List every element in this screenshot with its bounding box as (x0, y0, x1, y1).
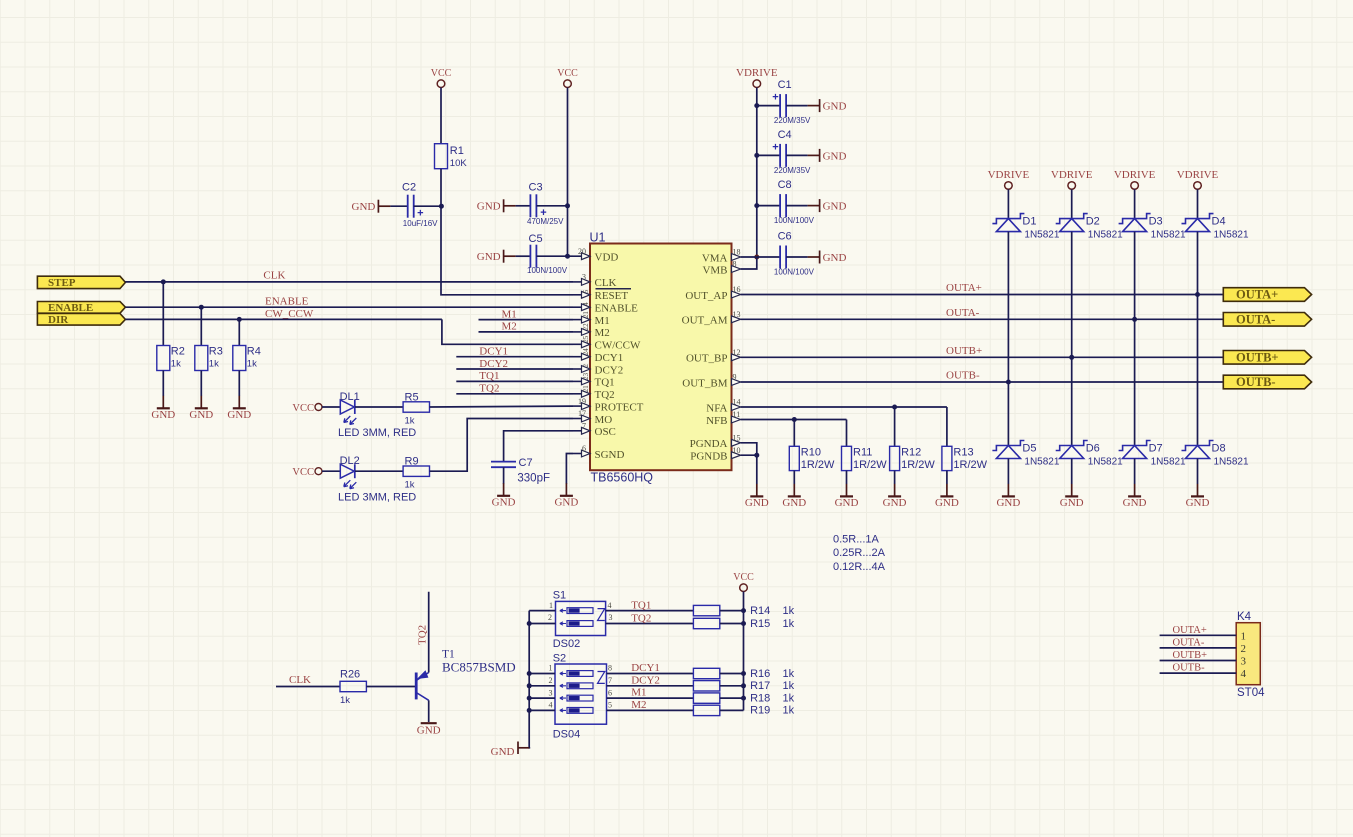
svg-text:20: 20 (578, 247, 586, 256)
svg-text:6: 6 (582, 444, 586, 453)
U1 pin 25 CW/CCW (left) (573, 335, 641, 351)
svg-text:2: 2 (549, 676, 553, 685)
wire C8 to GND (786, 205, 808, 207)
U1 pin 17 MO (left) (573, 409, 612, 426)
svg-text:R13: R13 (953, 447, 973, 459)
svg-text:DCY2: DCY2 (595, 364, 624, 376)
port OUTB- (1223, 375, 1311, 389)
svg-text:R1: R1 (450, 145, 464, 157)
svg-text:R18: R18 (750, 692, 770, 704)
svg-text:GND: GND (227, 409, 251, 421)
svg-text:C5: C5 (529, 233, 543, 245)
resistor R16 1k (693, 668, 794, 680)
svg-text:GND: GND (477, 251, 501, 263)
LED DL1 (338, 391, 416, 439)
node junction R1/C2 (439, 204, 444, 209)
svg-text:TQ2: TQ2 (479, 383, 499, 395)
svg-text:VDRIVE: VDRIVE (1114, 169, 1156, 181)
wire OSC to C7 (504, 431, 573, 461)
svg-text:D8: D8 (1212, 442, 1226, 454)
wire R10 riser (793, 420, 795, 447)
ground below R10 (782, 484, 806, 509)
resistor R14 1k (693, 605, 794, 617)
svg-text:1R/2W: 1R/2W (853, 459, 887, 471)
wire R2 net down (162, 282, 164, 346)
svg-text:DCY1: DCY1 (631, 662, 660, 674)
node junction S2 bus (527, 671, 532, 676)
svg-text:100N/100V: 100N/100V (774, 268, 815, 277)
svg-text:S2: S2 (553, 653, 566, 665)
wire VDRIVE to C4 (757, 154, 780, 156)
wire S2 to R19 (net M2) (607, 709, 694, 711)
resistor R10 1R/2W (789, 446, 835, 471)
svg-text:220M/35V: 220M/35V (774, 116, 811, 125)
svg-text:18: 18 (733, 248, 741, 257)
svg-text:OSC: OSC (595, 426, 616, 438)
U1 pin 19 PROTECT (left) (573, 397, 644, 414)
wire stub net TQ1 (456, 380, 573, 382)
svg-text:TQ2: TQ2 (595, 389, 615, 401)
wire R12 riser (894, 407, 896, 446)
resistor R5 (403, 392, 429, 427)
wire R1 to RESET pin (441, 169, 573, 295)
wire K4 stub net OUTB- (1160, 672, 1237, 674)
svg-text:K4: K4 (1237, 611, 1252, 623)
svg-text:STEP: STEP (48, 277, 76, 289)
svg-text:DCY2: DCY2 (479, 358, 508, 370)
svg-text:TQ1: TQ1 (479, 370, 499, 382)
U1 pin 22 M2 (left) (573, 323, 610, 339)
switch S1 DS02 (548, 590, 613, 651)
svg-text:DIR: DIR (48, 314, 69, 326)
svg-text:GND: GND (352, 201, 376, 213)
svg-text:1N5821: 1N5821 (1088, 230, 1123, 241)
wire S2 pin to bus (529, 697, 555, 699)
svg-text:GND: GND (417, 725, 441, 737)
resistor R26 (340, 669, 366, 707)
wire R13 riser (946, 407, 948, 446)
svg-text:R4: R4 (247, 346, 261, 358)
svg-text:0.25R...2A: 0.25R...2A (833, 547, 886, 559)
wire stub net TQ2 (456, 393, 573, 395)
wire K4 stub net OUTB+ (1160, 660, 1237, 662)
wire stub net DCY2 (456, 368, 573, 370)
svg-text:VMA: VMA (702, 252, 728, 264)
U1 pin 16 OUT_AP (right) (685, 285, 740, 302)
svg-text:C8: C8 (778, 179, 792, 191)
svg-text:1k: 1k (783, 705, 795, 717)
power VCC for DL2 (292, 467, 322, 478)
svg-text:D7: D7 (1149, 442, 1163, 454)
svg-text:C4: C4 (778, 129, 792, 141)
wire C6 to GND (786, 256, 808, 258)
wire OUTA+ from U1 to port (741, 294, 1224, 296)
wire VCC pullup bus (743, 592, 745, 711)
U1 pin 23 TQ1 (left) (573, 372, 615, 388)
svg-text:R2: R2 (171, 346, 185, 358)
svg-text:8: 8 (608, 664, 612, 673)
svg-text:D1: D1 (1022, 216, 1036, 228)
wire VCC to R1 (440, 88, 442, 144)
wire VDRIVE down to VMA/VMB (756, 88, 758, 258)
diode D7 1N5821 schottky (1119, 441, 1186, 468)
wire GND to C5 (516, 255, 531, 257)
svg-text:CLK: CLK (289, 674, 311, 686)
U1 pin 9 OUT_BM (right) (682, 373, 740, 390)
svg-text:OUTB-: OUTB- (1236, 375, 1276, 389)
svg-text:14: 14 (733, 398, 741, 407)
svg-text:OUTA-: OUTA- (946, 307, 980, 319)
svg-text:25: 25 (582, 335, 590, 343)
svg-text:GND: GND (151, 409, 175, 421)
svg-text:VCC: VCC (431, 68, 452, 79)
svg-text:1k: 1k (783, 605, 795, 617)
wire OUTA- from U1 to port (741, 318, 1224, 320)
svg-text:VDD: VDD (595, 252, 619, 264)
svg-text:OUT_AP: OUT_AP (685, 290, 727, 302)
value note current settings (833, 534, 886, 573)
diode D8 1N5821 schottky (1182, 441, 1249, 468)
node junction R14/VCC bus (741, 608, 746, 613)
svg-text:VCC: VCC (557, 68, 578, 79)
svg-text:GND: GND (189, 409, 213, 421)
svg-text:R15: R15 (750, 618, 770, 630)
ground for C4 (808, 149, 847, 162)
wire R13 to GND (946, 471, 948, 484)
wire R11 to GND (846, 471, 848, 484)
svg-text:VDRIVE: VDRIVE (1051, 169, 1093, 181)
svg-text:M1: M1 (502, 308, 517, 320)
svg-text:22: 22 (582, 323, 590, 331)
svg-text:GND: GND (1060, 497, 1084, 509)
svg-text:TB6560HQ: TB6560HQ (591, 471, 654, 485)
svg-text:2: 2 (1241, 643, 1247, 655)
svg-text:8: 8 (733, 260, 737, 269)
wire S1 pin4 to R14 (net TQ1) (606, 610, 694, 612)
svg-text:9: 9 (733, 373, 737, 382)
svg-text:VCC: VCC (292, 467, 314, 478)
wire T1 emitter up (net TQ2) (428, 592, 430, 673)
svg-text:1: 1 (549, 664, 553, 673)
wire R4 net down (238, 319, 240, 345)
svg-text:23: 23 (582, 372, 590, 380)
resistor R13 1R/2W (942, 446, 988, 471)
ground below R12 (883, 484, 907, 509)
svg-text:DCY2: DCY2 (631, 674, 660, 686)
ground below D8 (1186, 484, 1210, 509)
svg-text:VDRIVE: VDRIVE (1177, 169, 1219, 181)
svg-text:7: 7 (608, 676, 612, 685)
power VDRIVE (D1 column) (988, 169, 1030, 189)
svg-text:NFB: NFB (706, 415, 727, 427)
wire R5 to PROTECT pin (430, 405, 574, 408)
wire R4 to GND (238, 371, 240, 397)
svg-text:4: 4 (549, 701, 553, 710)
wire NFA to R12/R13 (741, 406, 947, 408)
power VCC (pullup bus) (733, 572, 754, 591)
svg-text:1N5821: 1N5821 (1214, 457, 1249, 468)
svg-text:GND: GND (996, 497, 1020, 509)
port OUTA+ (1223, 288, 1311, 302)
svg-text:10uF/16V: 10uF/16V (403, 219, 438, 228)
svg-text:1N5821: 1N5821 (1214, 230, 1249, 241)
svg-text:4: 4 (582, 302, 590, 306)
wire OUTB- from U1 to port (741, 381, 1224, 383)
svg-text:R26: R26 (340, 669, 360, 681)
wire R3 to GND (200, 371, 202, 397)
svg-text:GND: GND (492, 496, 516, 508)
LED DL2 (338, 455, 416, 504)
wire K4 stub net OUTA- (1160, 647, 1237, 649)
node junction NFB/R10 (792, 417, 797, 422)
U1 pin 11 NFB (right) (706, 410, 741, 427)
svg-text:M2: M2 (595, 327, 610, 339)
node junction VDRIVE cap (754, 103, 759, 108)
power VDRIVE (D4 column) (1177, 169, 1219, 189)
svg-text:1k: 1k (783, 692, 795, 704)
svg-text:GND: GND (1186, 497, 1210, 509)
svg-text:1N5821: 1N5821 (1088, 457, 1123, 468)
svg-text:TQ1: TQ1 (631, 599, 651, 611)
wire R17 to VCC bus (720, 685, 744, 687)
capacitor C1 220M/35V (772, 79, 811, 125)
svg-text:GND: GND (935, 497, 959, 509)
wire R9 to MO pin (430, 419, 574, 472)
svg-text:OUT_AM: OUT_AM (682, 315, 728, 327)
svg-text:ENABLE: ENABLE (595, 303, 639, 315)
diode D3 1N5821 schottky (1119, 214, 1186, 241)
svg-text:GND: GND (1123, 497, 1147, 509)
power VDRIVE (bulk caps) (736, 67, 778, 87)
ground below D7 (1123, 484, 1147, 509)
svg-text:CLK: CLK (595, 277, 617, 289)
svg-text:220M/35V: 220M/35V (774, 166, 811, 175)
wire C3 to VCC2 net (536, 205, 567, 207)
wire R16 to VCC bus (720, 673, 744, 675)
svg-text:1k: 1k (783, 618, 795, 630)
ground for switch bus (491, 742, 530, 759)
resistor R19 1k (693, 705, 794, 717)
wire R10 to GND (793, 471, 795, 484)
node junction CLK/R2 (161, 279, 166, 284)
capacitor C8 100N/100V (774, 179, 815, 225)
svg-text:M2: M2 (631, 699, 646, 711)
resistor R11 1R/2W (842, 446, 888, 471)
svg-text:OUTA+: OUTA+ (1173, 625, 1207, 636)
svg-text:10: 10 (733, 446, 741, 455)
svg-text:CW/CCW: CW/CCW (595, 340, 641, 352)
wire VDRIVE to C6 (757, 256, 780, 258)
wire C7 to GND (503, 467, 505, 484)
svg-text:VDRIVE: VDRIVE (988, 169, 1030, 181)
svg-text:100N/100V: 100N/100V (774, 216, 815, 225)
capacitor C6 100N/100V (774, 231, 815, 277)
svg-text:DCY1: DCY1 (595, 352, 624, 364)
wire S2 to R16 (net DCY1) (607, 673, 694, 675)
node junction NFA/R12 (892, 405, 897, 410)
wire stub net DCY1 (456, 356, 573, 358)
node junction OUTB-/diode column (1006, 380, 1011, 385)
svg-text:100N/100V: 100N/100V (527, 266, 568, 275)
switch S2 DS04 (549, 653, 613, 741)
port OUTA- (1223, 312, 1311, 326)
wire D4 column down to D8 (1197, 232, 1199, 446)
wire PGNDA/PGNDB to GND (741, 443, 757, 484)
ground for C3 (477, 199, 516, 212)
U1 pin 7 OSC (left) (573, 422, 616, 439)
svg-text:GND: GND (491, 746, 515, 758)
node junction CW_CCW/R4 (237, 317, 242, 322)
wire S1 pin2 to bus (529, 623, 555, 625)
svg-text:R19: R19 (750, 705, 770, 717)
svg-text:R9: R9 (405, 456, 419, 468)
wire VCC to DL2 (322, 470, 340, 472)
wire CW_CCW from DIR to U1 CW/CCW pin (125, 318, 442, 320)
wire C5 to VDD net (536, 255, 567, 257)
svg-text:VDRIVE: VDRIVE (736, 67, 778, 79)
port STEP (37, 276, 125, 289)
resistor R4 (233, 346, 261, 371)
ground for C5 (477, 250, 516, 263)
svg-text:3: 3 (549, 688, 553, 697)
U1 pin 21 TQ2 (left) (573, 385, 615, 401)
wire stub net M1 (479, 319, 574, 321)
wire VDRIVE to C8 (757, 205, 780, 207)
svg-text:M1: M1 (595, 315, 610, 327)
svg-text:M2: M2 (502, 321, 517, 333)
wire S1 pin3 to R15 (net TQ2) (606, 623, 694, 625)
svg-text:C7: C7 (519, 457, 533, 469)
svg-text:1k: 1k (171, 359, 181, 370)
svg-text:LED 3MM, RED: LED 3MM, RED (338, 492, 416, 504)
ground below R2 (151, 396, 175, 421)
resistor R17 1k (693, 680, 794, 692)
transistor T1 BC857BSMD (PNP) (416, 649, 516, 701)
svg-text:+: + (417, 207, 423, 219)
svg-text:ST04: ST04 (1237, 687, 1265, 699)
resistor R1 (435, 144, 468, 169)
svg-text:1N5821: 1N5821 (1024, 230, 1059, 241)
ground for C1 (808, 99, 847, 112)
ground below SGND (554, 483, 578, 508)
node junction R15/VCC bus (741, 621, 746, 626)
resistor R12 1R/2W (890, 446, 936, 471)
svg-text:R10: R10 (801, 447, 821, 459)
wire R14 to VCC bus (720, 610, 744, 612)
U1 pin 15 PGNDA (right) (690, 434, 741, 451)
wire VDRIVE to D2 (1071, 189, 1073, 218)
svg-text:OUTA-: OUTA- (1173, 638, 1205, 649)
svg-text:12: 12 (733, 348, 741, 357)
svg-text:3: 3 (582, 273, 586, 282)
svg-text:GND: GND (823, 150, 847, 162)
svg-text:19: 19 (578, 397, 586, 406)
svg-text:DL2: DL2 (340, 455, 360, 467)
svg-text:R14: R14 (750, 605, 770, 617)
wire NFB to R10/R11 (741, 419, 847, 421)
ground below R3 (189, 396, 213, 421)
svg-text:16: 16 (733, 285, 741, 294)
svg-text:4: 4 (608, 601, 612, 610)
U1 CLK underline bar (596, 288, 632, 290)
svg-text:DS04: DS04 (553, 729, 581, 741)
svg-text:13: 13 (733, 310, 741, 319)
ground below C7 (492, 483, 516, 508)
wire GND to C2 (390, 205, 407, 207)
ground for C6 (808, 251, 847, 264)
wire R2 to GND (162, 371, 164, 397)
svg-text:21: 21 (582, 385, 590, 393)
svg-text:1N5821: 1N5821 (1151, 230, 1186, 241)
U1 pin 14 NFA (right) (706, 398, 740, 415)
wire R19 to VCC bus (720, 709, 744, 711)
power VCC (U1 VDD) (557, 68, 578, 87)
svg-text:1R/2W: 1R/2W (953, 459, 987, 471)
wire R12 to GND (894, 471, 896, 484)
U1 pin 4 ENABLE (left) (573, 302, 638, 315)
svg-text:TQ2: TQ2 (631, 612, 651, 624)
node junction S1 pin2 bus (527, 621, 532, 626)
svg-text:10K: 10K (450, 158, 468, 169)
svg-text:24: 24 (582, 348, 590, 356)
wire C2 to R1 net (414, 205, 441, 207)
svg-text:LED 3MM, RED: LED 3MM, RED (338, 427, 416, 439)
svg-text:R12: R12 (901, 447, 921, 459)
wire D7 to GND (1134, 459, 1136, 485)
wire K4 stub net OUTA+ (1160, 634, 1237, 636)
svg-text:11: 11 (733, 410, 741, 419)
U1 pin 3 CLK (left) (573, 273, 617, 290)
svg-text:7: 7 (582, 422, 586, 431)
svg-text:GND: GND (883, 497, 907, 509)
op-amp / driver IC U1 TB6560HQ body (590, 231, 732, 485)
wire R26 to T1 base (366, 686, 415, 688)
svg-text:3: 3 (609, 613, 613, 622)
port OUTB+ (1223, 350, 1311, 364)
svg-text:RESET: RESET (595, 290, 629, 302)
node junction OUTB+/diode column (1069, 355, 1074, 360)
svg-text:NFA: NFA (706, 402, 727, 414)
svg-text:D4: D4 (1212, 216, 1226, 228)
wire DL2 to R9 (355, 470, 403, 472)
wire VCC to DL1 (322, 406, 340, 408)
svg-text:OUTB+: OUTB+ (946, 345, 982, 357)
wire VDRIVE to D4 (1197, 189, 1199, 218)
svg-text:S1: S1 (553, 590, 566, 602)
U1 pin 10 PGNDB (right) (690, 446, 740, 463)
wire SGND to GND (566, 454, 573, 485)
svg-text:5: 5 (582, 289, 590, 293)
svg-text:R17: R17 (750, 680, 770, 692)
svg-text:1k: 1k (405, 416, 415, 427)
wire R3 net down (200, 307, 202, 345)
ground for C8 (808, 199, 847, 212)
svg-text:OUTA+: OUTA+ (946, 282, 982, 294)
wire OUTB+ from U1 to port (741, 356, 1224, 358)
ground below R4 (227, 396, 251, 421)
node junction R16/VCC bus (741, 671, 746, 676)
ground below R13 (935, 484, 959, 509)
svg-text:D2: D2 (1086, 216, 1100, 228)
svg-text:C3: C3 (529, 182, 543, 194)
svg-text:1k: 1k (783, 668, 795, 680)
svg-text:1k: 1k (405, 480, 415, 491)
wire VMB riser to VMA (741, 257, 757, 269)
wire S2 to R17 (net DCY2) (607, 685, 694, 687)
svg-text:GND: GND (823, 252, 847, 264)
node junction VMA/VMB/C6 (754, 255, 759, 260)
svg-text:OUTB-: OUTB- (1173, 663, 1206, 674)
